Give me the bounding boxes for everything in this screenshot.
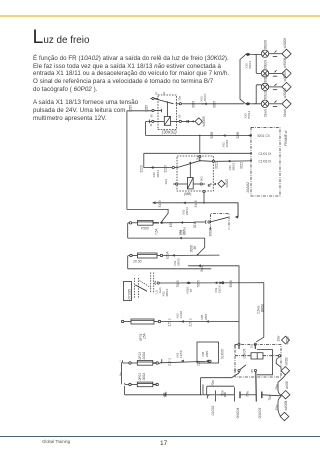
- top yellow rule: [0, 15, 320, 17]
- svg-text:3285: 3285: [145, 105, 149, 112]
- svg-text:0NG04: 0NG04: [236, 408, 240, 419]
- svg-text:3223: 3223: [164, 165, 168, 172]
- svg-text:70w: 70w: [221, 390, 225, 397]
- wire K2 to splice W6: [208, 183, 216, 187]
- relay K1 pin 87a right-top: [176, 103, 184, 105]
- svg-text:3215: 3215: [193, 221, 197, 228]
- wire switch feed 3145: [153, 200, 239, 216]
- svg-text:2B/11: 2B/11: [156, 170, 160, 178]
- ground mark pair E4: [273, 101, 277, 107]
- svg-text:w30/05: w30/05: [283, 88, 287, 99]
- lamp E3 30E10: [261, 73, 268, 91]
- svg-text:2B/6: 2B/6: [205, 350, 209, 357]
- svg-text:7005: 7005: [176, 280, 180, 287]
- relay K1 pin 86 bottom-left: [146, 120, 165, 136]
- svg-text:w#2B: w#2B: [284, 358, 288, 366]
- svg-text:2,5r s: 2,5r s: [189, 318, 193, 326]
- svg-text:B/01 CX: B/01 CX: [258, 134, 271, 138]
- svg-text:3085: 3085: [213, 101, 217, 108]
- wire left bus vertical: [126, 111, 128, 210]
- svg-text:3145: 3145: [158, 200, 162, 207]
- svg-text:B6/12: B6/12: [248, 60, 252, 68]
- svg-text:3145: 3145: [194, 200, 198, 207]
- wire lamp E2 to splice: [269, 72, 282, 74]
- svg-text:2B/13: 2B/13: [185, 207, 189, 215]
- fuse F4 body: [123, 359, 206, 365]
- wire 3223 into K2 left pin: [139, 153, 172, 177]
- footer line: [0, 436, 320, 437]
- relay K1 box: [158, 95, 177, 130]
- svg-text:13/58: 13/58: [179, 350, 183, 358]
- wire lamp E3 to splice: [269, 86, 282, 88]
- svg-text:w30/06: w30/06: [283, 57, 287, 68]
- svg-text:25w: 25w: [275, 383, 279, 390]
- svg-text:16/49: 16/49: [225, 140, 229, 148]
- svg-text:01K05: 01K05: [221, 349, 225, 359]
- wire 3285 from K2 to pin B/01: [146, 131, 251, 153]
- svg-text:300A: 300A: [142, 372, 146, 381]
- connectors on fuse F4 wire: [168, 350, 209, 366]
- svg-text:F505: F505: [141, 227, 149, 231]
- svg-text:85: 85: [250, 369, 254, 373]
- svg-text:(30K02): (30K02): [162, 129, 178, 134]
- fuse F5 body: [125, 382, 159, 387]
- fuse F3 labels: [139, 333, 147, 341]
- connector on F1 branch: [178, 229, 205, 254]
- svg-text:3285: 3285: [236, 131, 240, 138]
- svg-text:2B/12: 2B/12: [165, 288, 169, 296]
- wire 3222 K2 to pin C1/03: [214, 160, 250, 171]
- relay K3 box: [235, 345, 281, 378]
- svg-text:3006: 3006: [229, 280, 233, 287]
- svg-text:36/4: 36/4: [182, 229, 186, 235]
- svg-text:10A02: 10A02: [246, 181, 250, 193]
- connectors on fuse F3 wire: [168, 311, 209, 327]
- relay K3 right pin: [276, 355, 281, 368]
- svg-text:2B/15: 2B/15: [177, 258, 181, 266]
- svg-text:86: 86: [149, 114, 153, 118]
- paragraph 2: [33, 99, 173, 123]
- ground mark pair E2: [273, 70, 277, 76]
- relay K2 coil right pin: [193, 176, 205, 185]
- svg-text:C1/03 IX: C1/03 IX: [259, 159, 273, 163]
- connector on fuse F2 wire: [172, 245, 197, 266]
- svg-text:13/18: 13/18: [179, 311, 183, 319]
- switch S1 right arrow: [235, 204, 238, 219]
- wire ground bus: [125, 386, 203, 398]
- svg-text:15: 15: [250, 345, 254, 349]
- relay K2 bottom pin stub: [203, 190, 205, 202]
- svg-text:85: 85: [177, 114, 181, 118]
- svg-text:150: 150: [169, 222, 173, 228]
- svg-text:A5/A7: A5/A7: [203, 93, 207, 102]
- svg-text:w30/0: w30/0: [225, 179, 229, 188]
- svg-text:30E09: 30E09: [263, 60, 267, 69]
- svg-text:2H: 2H: [195, 156, 199, 160]
- svg-text:7005: 7005: [197, 280, 201, 287]
- wire fuse F2 left branch: [128, 256, 212, 269]
- svg-text:87: 87: [154, 91, 158, 95]
- wire K1 85 to splice W5: [184, 120, 195, 123]
- svg-text:B7/12: B7/12: [247, 110, 251, 118]
- splice W4 diamond: [282, 88, 291, 117]
- svg-text:2B/10: 2B/10: [232, 162, 236, 170]
- wire battery feed riser: [207, 379, 235, 397]
- relay K2 right pin: [200, 160, 218, 162]
- connector X25 B7/12: [243, 102, 251, 118]
- svg-text:100A: 100A: [166, 251, 170, 259]
- relay K1 contact blade: [154, 99, 174, 104]
- connector pair on wire 7005: [176, 280, 201, 294]
- svg-text:(MB): (MB): [184, 192, 191, 196]
- svg-text:30E11: 30E11: [263, 90, 267, 99]
- connector X62 2B/14 on fuse F1 wire: [169, 221, 197, 235]
- wire down to relay K3: [256, 283, 264, 342]
- svg-text:36: 36: [193, 246, 197, 250]
- svg-text:w30/05: w30/05: [283, 71, 287, 82]
- svg-text:w#05B: w#05B: [284, 401, 288, 411]
- switch S2 blade: [135, 285, 147, 291]
- relay K2 coil: [187, 162, 193, 189]
- svg-text:30: 30: [233, 369, 237, 373]
- svg-text:15A: 15A: [142, 333, 146, 339]
- paragraph 1: [33, 55, 273, 95]
- splice W3 diamond: [282, 71, 291, 92]
- svg-text:03K05: 03K05: [243, 349, 247, 359]
- svg-text:w#06: w#06: [285, 381, 289, 389]
- svg-text:18/16: 18/16: [217, 285, 221, 293]
- wire bus into fuse F1 output: [127, 209, 168, 222]
- lamp E4 30E11: [261, 90, 268, 117]
- relay K2 coil left pin: [164, 179, 187, 185]
- wire K1 87a to lamps: [184, 103, 244, 105]
- svg-text:31: 31: [149, 123, 153, 127]
- svg-text:30E08: 30E08: [263, 40, 267, 49]
- svg-text:2B/6: 2B/6: [204, 313, 208, 320]
- svg-text:3285: 3285: [129, 105, 133, 112]
- svg-text:2,5r s: 2,5r s: [168, 358, 172, 366]
- splice W2 diamond: [282, 57, 291, 77]
- wire K3 30 to bus riser: [200, 373, 239, 395]
- switch S1 blade: [210, 217, 228, 222]
- relay K1 pin 30 middle-left: [152, 109, 162, 113]
- connector X62 A5/A7: [192, 93, 217, 108]
- relay K1 pin micro labels: [149, 91, 181, 118]
- relay K1 coil: [164, 101, 170, 125]
- svg-text:07S05: 07S05: [127, 289, 131, 299]
- svg-text:3H6: 3H6: [164, 179, 168, 185]
- wire bottom pair feed: [251, 85, 261, 104]
- wire lamp E4 to splice: [269, 103, 282, 105]
- svg-text:3222: 3222: [240, 162, 244, 169]
- svg-text:3222: 3222: [214, 162, 218, 169]
- relay K2 box: [177, 156, 213, 191]
- svg-text:BR06: BR06: [260, 304, 264, 312]
- fuse F3 body: [121, 319, 239, 324]
- connector X62 18/16 on wire: [214, 280, 233, 293]
- svg-text:31w/s: 31w/s: [263, 108, 267, 117]
- battery G1 0NG04: [234, 387, 255, 418]
- svg-text:100A: 100A: [142, 351, 146, 360]
- module A1 pin C1/03 IX: [250, 159, 272, 163]
- ground mark pair E1: [273, 51, 277, 57]
- fuse F2 body: [130, 253, 220, 258]
- relay K2 contact blade: [178, 161, 200, 168]
- lamp E1 30E08: [261, 40, 268, 58]
- svg-text:20.50: 20.50: [132, 260, 142, 264]
- svg-text:25w: 25w: [275, 404, 279, 411]
- svg-text:70w: 70w: [211, 379, 215, 386]
- svg-text:70w: 70w: [246, 390, 250, 397]
- module A1 pin C1/01 IX: [250, 152, 272, 156]
- switch S2 pin L5: [154, 281, 263, 296]
- splice diamond top right of K3: [282, 336, 290, 344]
- splice W7 diamond: [277, 335, 290, 375]
- connector X25 B6/12: [245, 53, 253, 69]
- svg-text:3285: 3285: [210, 131, 214, 138]
- splice W6 diamond: [218, 179, 229, 188]
- ground mark pair E3: [273, 84, 277, 90]
- svg-text:S1: S1: [162, 91, 166, 95]
- relay K3 coil: [251, 353, 263, 359]
- wire fuse F1 left branch: [128, 223, 180, 238]
- relay K1 pin 87 top-left: [151, 97, 159, 99]
- splice W5 diamond: [195, 116, 206, 127]
- wire k3 vertical to pin: [238, 322, 240, 344]
- switch S2 linkage: [135, 273, 154, 299]
- wire 3285 into K1 pin 30: [127, 105, 152, 112]
- fuse F5 labels: [138, 372, 146, 381]
- svg-text:13w: 13w: [277, 335, 281, 342]
- svg-text:70w: 70w: [164, 391, 168, 398]
- svg-text:3085: 3085: [192, 101, 196, 108]
- svg-text:w30/05: w30/05: [202, 116, 206, 127]
- svg-text:30: 30: [233, 345, 237, 349]
- relay K3 pin 15 top: [250, 343, 257, 349]
- wire left bus to F5: [120, 361, 122, 384]
- svg-text:70w: 70w: [268, 394, 272, 401]
- module A1 frame box: [251, 128, 280, 197]
- splice W1 diamond: [282, 38, 291, 59]
- module A1 pin B/01 CX: [248, 134, 271, 138]
- svg-text:01G01: 01G01: [211, 405, 215, 415]
- fuse F4 labels: [138, 351, 146, 360]
- switch S1 left pin: [195, 220, 210, 224]
- relay K3 centerline: [235, 355, 279, 357]
- relay K3 inner frame: [257, 350, 273, 375]
- svg-text:30605: 30605: [209, 227, 213, 236]
- wire long 3223 to pin C1/01: [144, 152, 250, 154]
- wire lamp E1 to splice: [269, 53, 282, 55]
- svg-text:FRAME.st: FRAME.st: [284, 129, 288, 146]
- fuse F1 body: [129, 220, 195, 225]
- svg-text:w#2B: w#2B: [286, 337, 290, 345]
- title: [33, 28, 90, 50]
- svg-text:C1/01 IX: C1/01 IX: [259, 152, 273, 156]
- battery G2 0NG05: [258, 392, 281, 419]
- svg-text:3223: 3223: [139, 165, 143, 172]
- svg-text:2,5r s: 2,5r s: [168, 318, 172, 326]
- switch S2 designator box: [124, 282, 132, 301]
- relay K1 pin 85 right-bottom: [171, 120, 185, 122]
- wire to relay K3 pin 15: [188, 264, 239, 321]
- connector box X05: [197, 342, 225, 363]
- splice W8 diamond: [275, 375, 290, 416]
- svg-text:3w1: 3w1: [200, 266, 204, 272]
- relay K3 contact pins bottom: [233, 365, 257, 402]
- svg-text:B/3: B/3: [200, 176, 204, 181]
- svg-text:30E10: 30E10: [263, 73, 267, 82]
- svg-text:30a: 30a: [177, 96, 181, 101]
- svg-text:7,5A: 7,5A: [155, 228, 159, 235]
- relay K3 pin 30 top: [233, 343, 240, 349]
- svg-text:w30/06: w30/06: [283, 38, 287, 49]
- splice W9 diamond: [280, 401, 289, 421]
- svg-text:31w/s: 31w/s: [283, 108, 287, 117]
- junction node F2: [197, 254, 199, 256]
- switch S1 box: [211, 214, 230, 230]
- lamp E2 30E09: [261, 60, 268, 78]
- svg-text:87: 87: [189, 288, 193, 292]
- wire top pair feed: [251, 54, 261, 73]
- relay K2 top pin: [195, 155, 201, 160]
- svg-text:0NG05: 0NG05: [258, 408, 262, 419]
- wire riser to upper connector: [240, 55, 245, 103]
- relay K2 left pin: [172, 166, 177, 168]
